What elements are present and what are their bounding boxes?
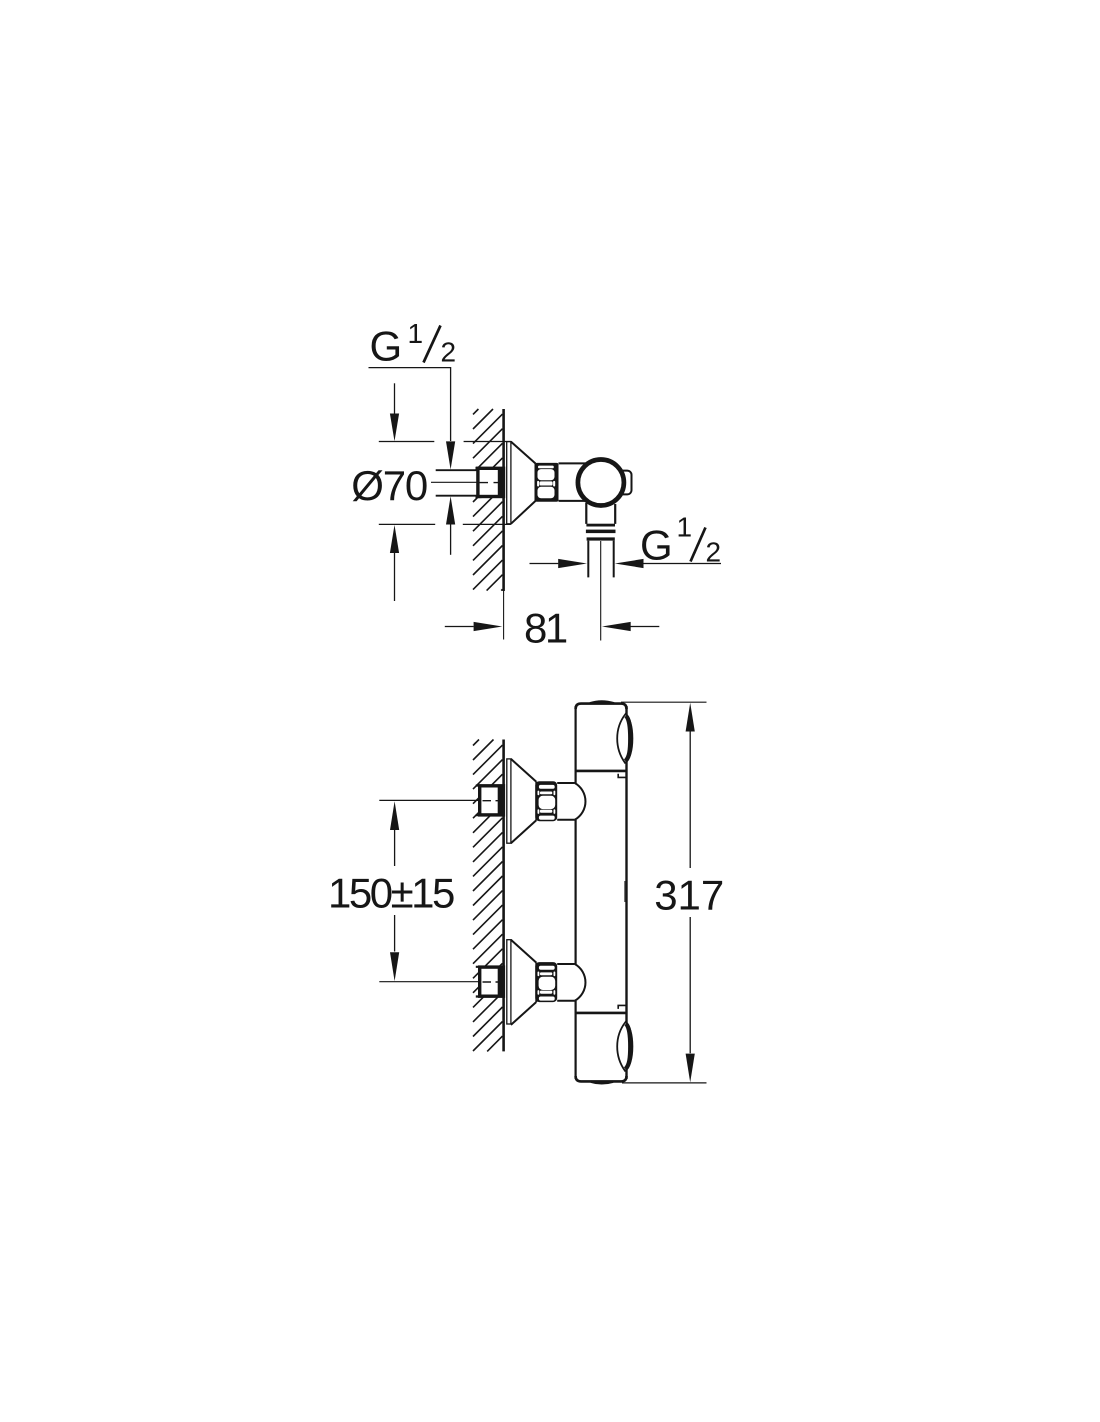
- svg-text:1: 1: [677, 512, 693, 543]
- Ø70 upper arrow: [394, 383, 396, 414]
- hose connector bands: [586, 524, 615, 527]
- lower escutcheon cone: [511, 940, 536, 1025]
- pipe centerline (dash-dot): [431, 481, 477, 483]
- fraction slash (hose label): [691, 528, 706, 562]
- fraction slash (top label): [424, 326, 441, 363]
- upper threaded pipe (square, front view): [480, 786, 504, 815]
- upper union nut (front view): [535, 781, 557, 821]
- 317 arrow up: [686, 703, 695, 732]
- lower union nut (front view): [535, 962, 557, 1002]
- leader line from G1/2 to pipe: [369, 368, 451, 441]
- wall face line (top view): [502, 409, 505, 591]
- valve bar top cap edge: [576, 704, 627, 709]
- subtle weld seam on right edge: [624, 881, 626, 902]
- cap on right of knob: [618, 471, 632, 495]
- wall face line (front view): [502, 740, 505, 1052]
- bottom joint step tick: [618, 1005, 626, 1009]
- hose centerline down to 81 dim: [600, 541, 602, 641]
- 81 dimension: [445, 626, 474, 628]
- lower threaded pipe (square, front view): [480, 967, 504, 996]
- supply pipe tube in wall: [436, 470, 503, 496]
- label G 1/2 (hose): [640, 512, 721, 569]
- G1/2 long arrow up to pipe bottom: [446, 496, 455, 524]
- svg-text:G: G: [640, 522, 670, 569]
- top side-knob lens: [617, 714, 632, 763]
- upper escutcheon flange: [507, 759, 511, 843]
- lower inlet collar: [557, 964, 575, 1001]
- top cap crown arc: [590, 702, 614, 704]
- escutcheon flange (top view): [507, 442, 511, 524]
- svg-text:Ø70: Ø70: [351, 462, 427, 509]
- bottom cap joint line: [576, 1012, 627, 1015]
- wall line thin extension down to 81 dimension: [503, 591, 505, 640]
- 150±15 extension line lower / pipe centerline: [379, 981, 479, 983]
- svg-text:1: 1: [408, 318, 424, 349]
- 317 extension line bottom: [622, 1082, 707, 1084]
- union nut (top view, black with white facets): [535, 463, 559, 502]
- svg-text:G: G: [370, 323, 400, 370]
- Ø70 dimension lines: [379, 441, 511, 443]
- valve bar right edge: [625, 706, 627, 1079]
- top joint step tick: [618, 774, 626, 778]
- upper inlet collar: [557, 783, 575, 820]
- upper inlet dome boss: [575, 783, 586, 820]
- escutcheon cone (top view): [511, 442, 536, 524]
- threaded pipe end (square): [478, 468, 504, 496]
- svg-text:81: 81: [524, 605, 567, 652]
- wall hatching (front view): [473, 740, 503, 1052]
- wall hatching (top view): [473, 409, 503, 591]
- top cap joint line: [576, 770, 627, 773]
- hose G1/2 dimension arrows: [530, 563, 559, 565]
- 317 dimension line: [689, 731, 691, 1053]
- lower inlet dome boss: [575, 964, 586, 1001]
- label G 1/2 (top): [370, 318, 457, 370]
- svg-text:2: 2: [441, 337, 457, 368]
- elbow below knob: [586, 503, 615, 524]
- 150±15 extension line upper / pipe centerline: [379, 799, 479, 801]
- bottom cap crown arc: [591, 1082, 613, 1084]
- 150±15 dimension line and arrows: [390, 801, 399, 830]
- svg-text:317: 317: [654, 871, 724, 918]
- bottom side-knob lens: [617, 1022, 632, 1071]
- svg-text:150±15: 150±15: [328, 869, 454, 916]
- lower escutcheon flange: [507, 940, 511, 1024]
- Ø70 lower arrow: [390, 525, 399, 553]
- 317 extension line top: [621, 701, 707, 703]
- valve body cylinder (top view): [559, 463, 589, 501]
- thermostat knob (large circle): [578, 460, 624, 506]
- 317 arrow down: [686, 1054, 695, 1083]
- shower hose stub: [588, 541, 613, 578]
- G1/2 long arrow down to pipe top: [446, 441, 455, 469]
- valve bar left edge: [574, 706, 576, 1079]
- upper escutcheon cone: [511, 759, 536, 843]
- valve bar bottom cap edge: [576, 1076, 627, 1081]
- svg-text:2: 2: [706, 537, 722, 568]
